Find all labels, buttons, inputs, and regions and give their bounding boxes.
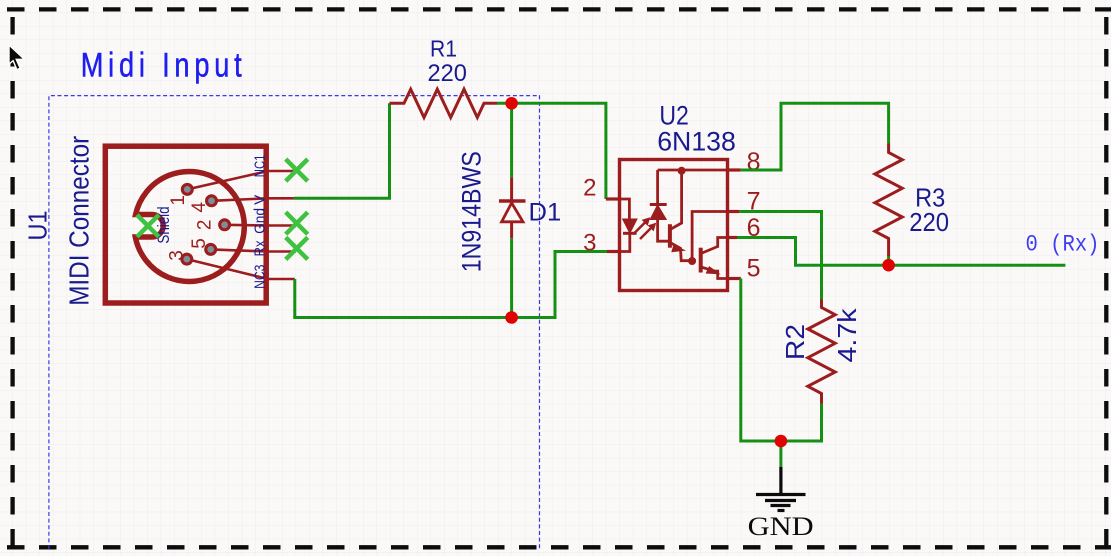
resistor R1: [390, 89, 498, 117]
pin wire p5->Rx: [211, 249, 296, 251]
wire pin8 to R3: [741, 103, 889, 170]
svg-text:8: 8: [747, 148, 761, 176]
wire D1 bottom: [510, 238, 513, 317]
wire gnd stem: [779, 441, 782, 469]
top rail to pin 8: [658, 169, 728, 172]
svg-text:3: 3: [583, 229, 596, 256]
connector pad 1: [181, 183, 194, 196]
wire NC3 pin down to bottom rail: [293, 279, 296, 318]
mouse cursor: [9, 45, 24, 70]
svg-text:4.7k: 4.7k: [832, 307, 862, 362]
svg-text:6N138: 6N138: [657, 127, 736, 157]
connector pad 4: [205, 194, 218, 207]
svg-text:220: 220: [909, 207, 949, 237]
svg-text:4: 4: [189, 201, 210, 212]
junction dot D1/rail: [505, 311, 518, 324]
wire bottom rail: [293, 316, 555, 319]
svg-text:5: 5: [747, 255, 761, 283]
connector pad 5: [204, 243, 217, 256]
diode D1: [499, 178, 526, 239]
wire pin7 to R2: [739, 212, 821, 300]
svg-text:5: 5: [189, 238, 210, 249]
junction dot output node: [882, 259, 895, 272]
MIDI connector circle with notch: [135, 171, 244, 281]
no-connect X Rx: [286, 237, 308, 259]
svg-text:Midi Input: Midi Input: [81, 46, 247, 85]
wire output to Rx: [889, 264, 1066, 267]
svg-text:3: 3: [166, 250, 187, 261]
junction dot R1/D1: [505, 97, 518, 110]
wire R2 bottom: [820, 404, 823, 443]
svg-text:R1: R1: [430, 35, 457, 61]
transistor T2: [699, 248, 703, 273]
no-connect X Gnd: [286, 212, 308, 234]
svg-text:D1: D1: [529, 199, 562, 227]
svg-text:0 (Rx): 0 (Rx): [1026, 232, 1100, 258]
svg-text:MIDI Connector: MIDI Connector: [64, 136, 95, 306]
connector pad 3: [180, 253, 193, 266]
internal junction dots: [678, 167, 686, 175]
no-connect X NC1: [286, 159, 308, 181]
ground symbol: [756, 467, 806, 511]
input LED: [620, 199, 630, 219]
opto-coupler U2: [606, 160, 741, 291]
wire pin6 to output node: [737, 238, 889, 266]
svg-text:R2: R2: [780, 324, 810, 360]
svg-text:1: 1: [168, 195, 189, 206]
connector pad 2: [218, 218, 231, 231]
pin wire p2->Gnd: [225, 224, 296, 227]
no-connect X shield: [137, 215, 159, 237]
wire D1 top: [510, 103, 513, 177]
svg-text:Shield: Shield: [155, 206, 173, 243]
transistor T1: [668, 224, 672, 248]
wire pin5 down to gnd rail: [741, 279, 822, 442]
wire rail up to U2 pin3: [555, 252, 607, 320]
resistor R2: [808, 300, 835, 404]
svg-text:U1: U1: [25, 211, 53, 241]
pin stubs: [606, 197, 620, 200]
svg-text:1N914BWS: 1N914BWS: [457, 151, 487, 272]
selection rectangle U1 (blue dotted): [49, 96, 540, 549]
MIDI connector body square: [105, 146, 266, 303]
photodiode: [656, 170, 659, 205]
svg-text:2: 2: [583, 175, 596, 202]
svg-text:V: V: [252, 195, 269, 205]
pin wire p1->NC1: [187, 171, 296, 189]
pin 7 internal: [692, 212, 727, 262]
pin wire p3->NC3: [187, 259, 295, 279]
wire R1 right to U2 pin2: [497, 103, 606, 199]
svg-text:NC3: NC3: [252, 265, 269, 289]
svg-text:GND: GND: [748, 512, 814, 541]
svg-text:NC1: NC1: [252, 155, 269, 178]
light arrows: [634, 221, 653, 240]
resistor R3: [875, 144, 902, 257]
wire V pin to R1: [294, 103, 390, 198]
svg-text:Rx: Rx: [252, 240, 269, 257]
pin wire p4->V: [212, 198, 294, 201]
junction dot gnd rail: [775, 435, 788, 448]
wire R3 bottom to node: [887, 255, 890, 266]
svg-text:220: 220: [428, 60, 467, 87]
svg-text:Gnd: Gnd: [252, 208, 269, 234]
svg-text:2: 2: [194, 220, 215, 231]
